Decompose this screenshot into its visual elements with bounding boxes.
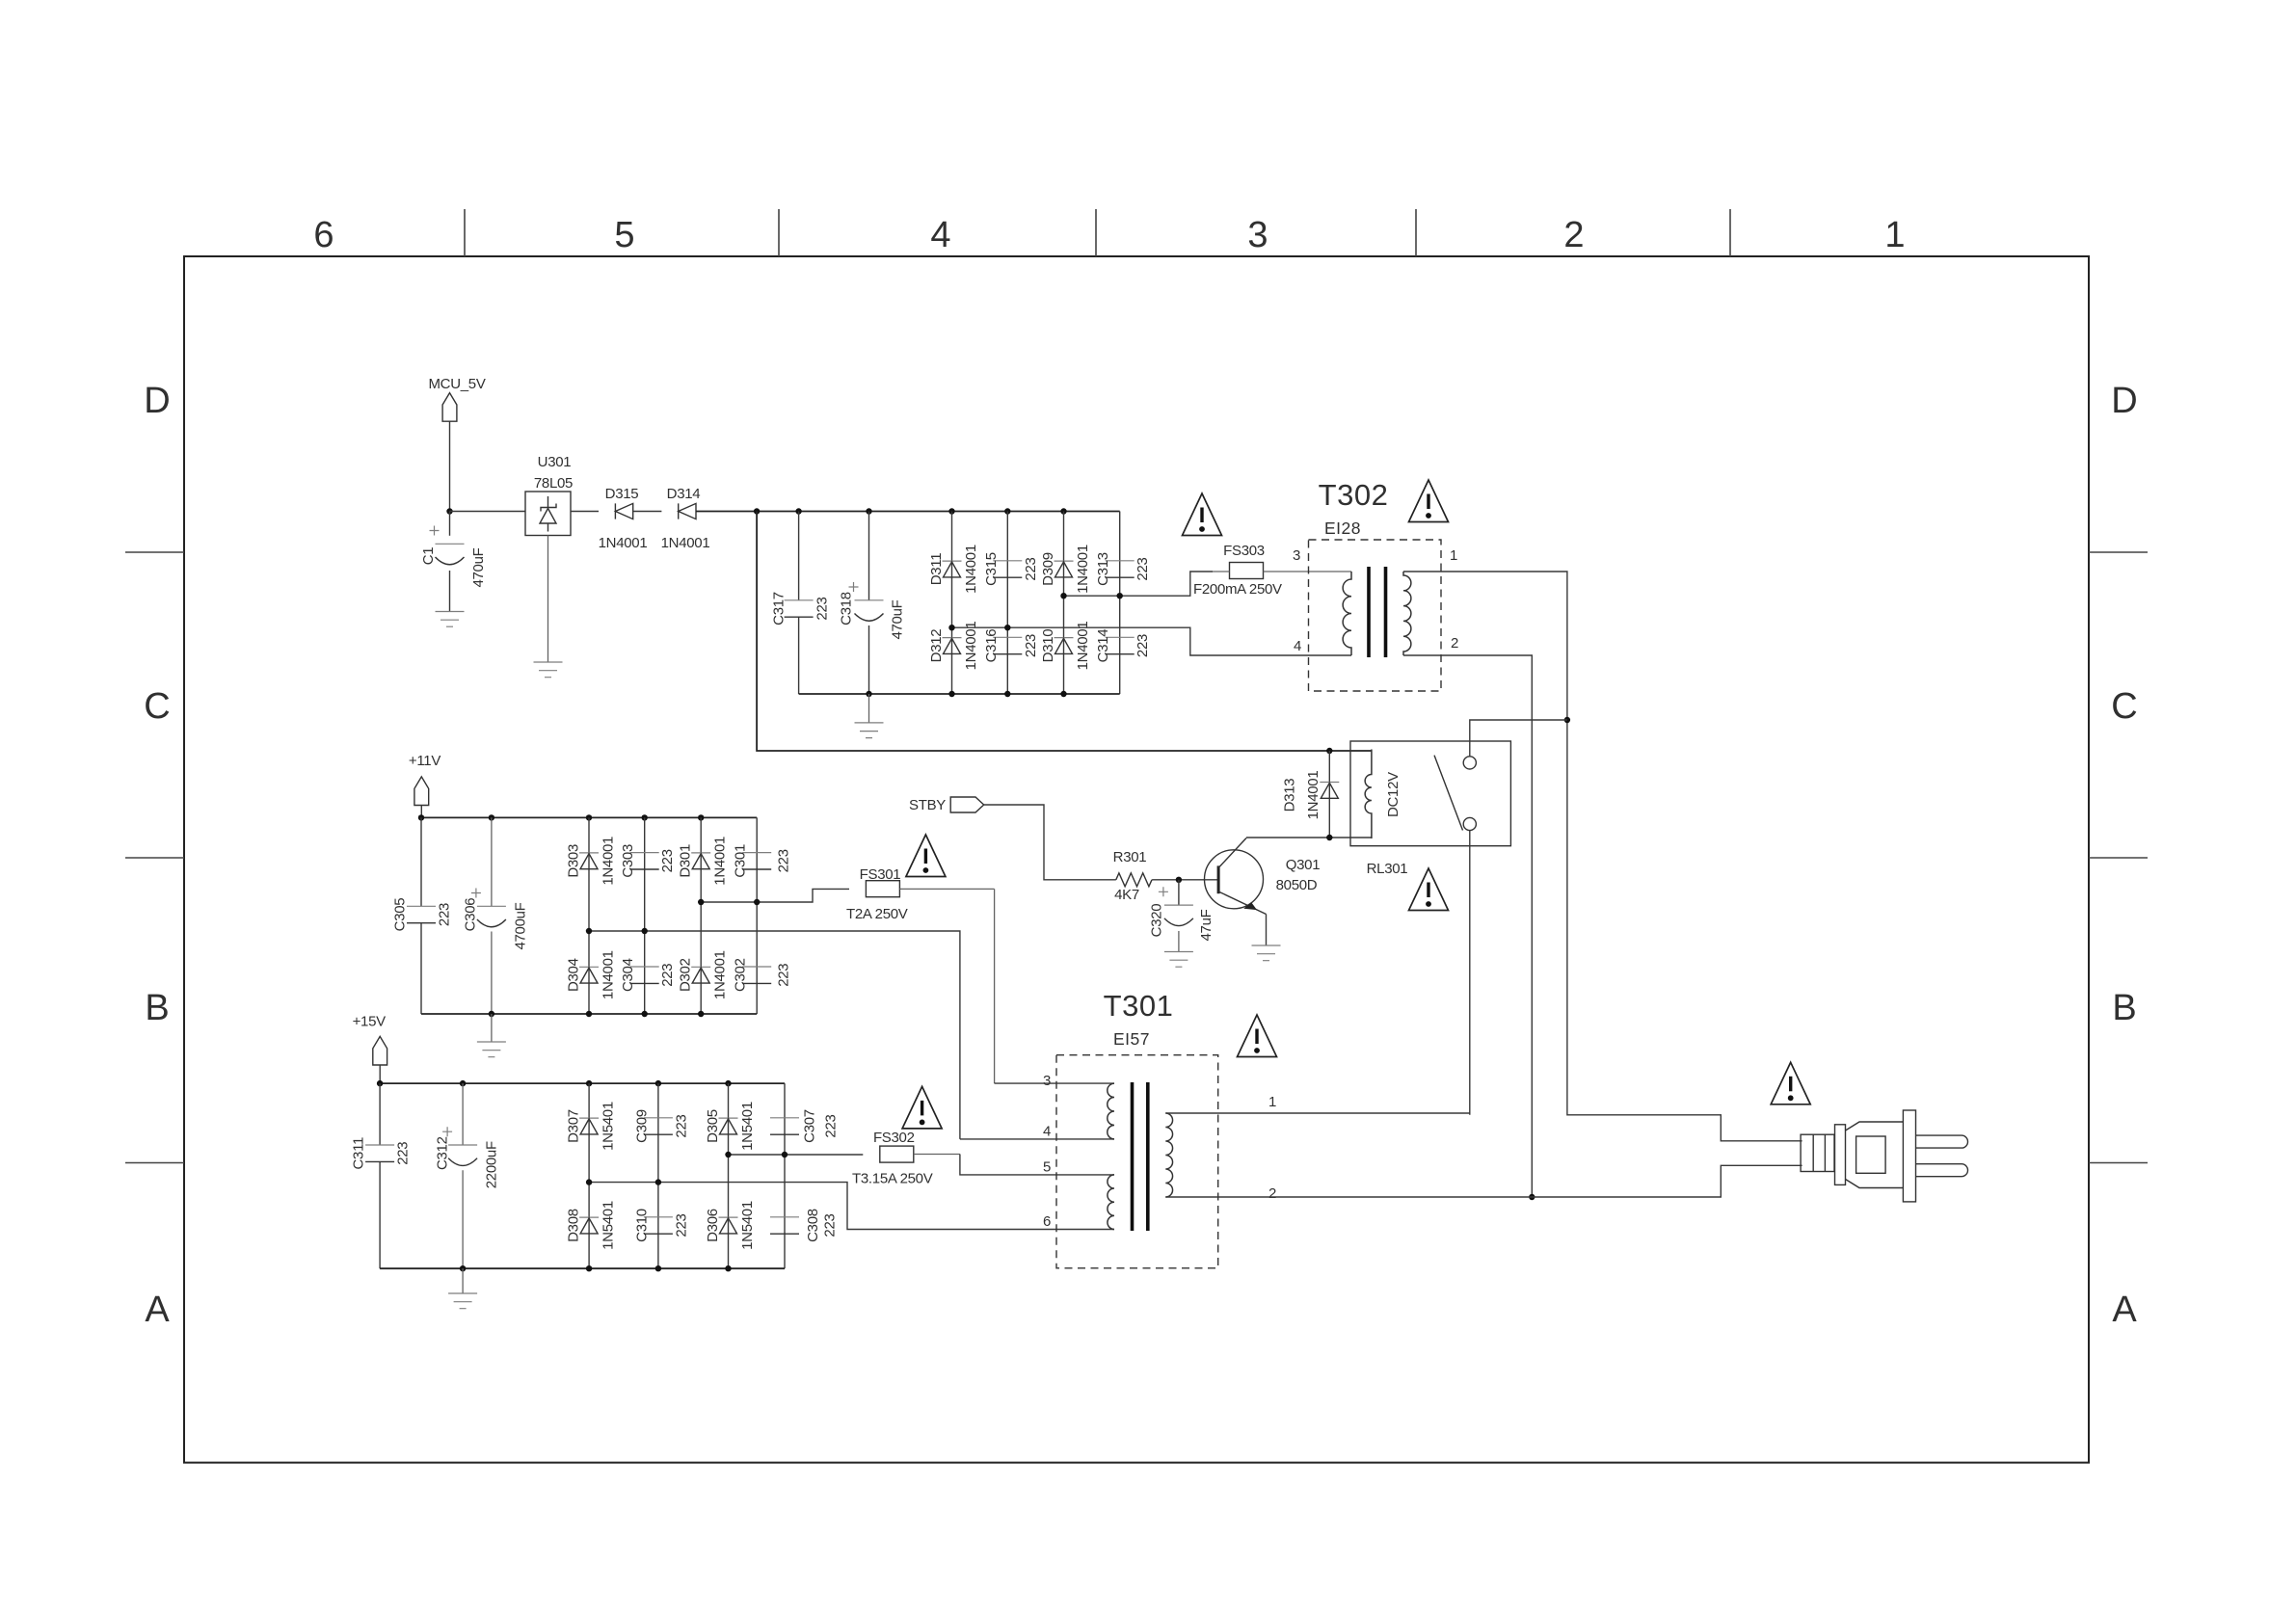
capacitor C304 column (223): [644, 931, 646, 1014]
diode D303 column (1N4001): [588, 817, 590, 931]
ground below C320: [1164, 952, 1193, 968]
wire main +rail D314 to array (node row): [696, 508, 1120, 514]
svg-text:223: 223: [822, 1213, 839, 1237]
svg-text:D315: D315: [605, 486, 639, 502]
svg-text:3: 3: [1293, 547, 1300, 564]
capacitor C301 (223): [733, 844, 792, 878]
capacitor C304 (223): [620, 958, 676, 992]
T302 pin 2 label: [1451, 635, 1458, 652]
svg-text:3: 3: [1247, 215, 1268, 255]
svg-text:223: 223: [1023, 634, 1039, 657]
ground below C318 column: [855, 694, 884, 738]
capacitor C308 column (223): [770, 1155, 839, 1268]
diode D307 (1N5401): [566, 1102, 617, 1151]
diode D305 (1N5401): [705, 1102, 756, 1151]
svg-text:1N4001: 1N4001: [712, 837, 729, 886]
diode D301 (1N4001): [678, 837, 729, 886]
svg-text:1N4001: 1N4001: [963, 622, 979, 671]
svg-text:DC12V: DC12V: [1385, 772, 1402, 817]
svg-text:1N5401: 1N5401: [739, 1201, 756, 1250]
row label D right: [2111, 381, 2137, 421]
power flag MCU_5V: [428, 376, 485, 421]
capacitor C301 column (223): [756, 817, 758, 902]
row label C right: [2111, 686, 2137, 727]
diode D311 column (1N4001): [951, 512, 953, 628]
warning triangle right of T302: [1409, 480, 1449, 522]
svg-text:C315: C315: [983, 552, 1000, 586]
svg-text:FS303: FS303: [1223, 543, 1265, 559]
power flag +15V: [353, 1014, 387, 1066]
T301 pin 5 label: [1043, 1159, 1051, 1176]
capacitor C309 column (223): [657, 1083, 659, 1183]
diode D306 column (1N5401): [728, 1155, 730, 1268]
net label STBY: [909, 797, 984, 813]
regulator U301 78L05: [525, 454, 573, 536]
svg-text:C306: C306: [463, 898, 479, 932]
row label B right: [2112, 988, 2136, 1028]
svg-text:F200mA 250V: F200mA 250V: [1193, 581, 1282, 598]
diode D309 (1N4001): [1040, 545, 1091, 594]
wire D305/C307 junction to FS302: [725, 1152, 863, 1157]
svg-text:D314: D314: [667, 486, 701, 502]
svg-text:D302: D302: [678, 958, 694, 992]
svg-text:C316: C316: [983, 629, 1000, 663]
transformer T301 EI57 subtitle: [1113, 1029, 1150, 1049]
row label B left: [145, 988, 169, 1028]
svg-text:D303: D303: [566, 844, 582, 878]
svg-text:A: A: [145, 1290, 170, 1330]
capacitor C315 (223): [983, 552, 1039, 586]
svg-text:B: B: [2112, 988, 2136, 1028]
svg-text:223: 223: [814, 597, 831, 620]
svg-text:D306: D306: [705, 1209, 721, 1242]
svg-text:Q301: Q301: [1286, 857, 1321, 873]
svg-text:C305: C305: [392, 898, 409, 932]
svg-text:D313: D313: [1282, 779, 1298, 812]
ground below C306: [477, 1014, 506, 1057]
wire T302 pin1 to relay contact and plug line: [1403, 572, 1802, 1141]
wire D309/C313 junction to FS303: [1060, 572, 1213, 599]
wire relay bottom contact down to T301 pin1 net: [1469, 831, 1471, 1115]
diode D312 column (1N4001): [951, 627, 953, 694]
svg-text:A: A: [2112, 1290, 2137, 1330]
svg-text:1N4001: 1N4001: [1305, 771, 1322, 820]
capacitor C1 (470uF) polarized: [420, 512, 487, 612]
capacitor C310 column (223): [657, 1183, 659, 1269]
diode D302 (1N4001): [678, 950, 729, 999]
svg-text:D305: D305: [705, 1109, 721, 1143]
capacitor C318 (470uF) polarized: [839, 512, 906, 695]
svg-text:B: B: [145, 988, 169, 1028]
svg-text:C1: C1: [420, 547, 437, 566]
svg-text:C311: C311: [351, 1137, 367, 1170]
diode D310 (1N4001): [1040, 622, 1091, 671]
svg-text:470uF: 470uF: [470, 547, 487, 587]
row label A left: [145, 1290, 170, 1330]
svg-text:470uF: 470uF: [890, 599, 906, 639]
diode D303 (1N4001): [566, 837, 617, 886]
svg-text:5: 5: [1043, 1159, 1051, 1176]
diode D302 column (1N4001): [700, 902, 702, 1014]
column label 4: [930, 215, 950, 255]
svg-text:47uF: 47uF: [1198, 909, 1215, 941]
warning triangle above FS301: [906, 835, 946, 877]
T301 core bars: [1133, 1082, 1148, 1231]
wire T301 pin4 lead: [960, 1138, 1114, 1140]
T301 secondary coil: [1165, 1113, 1172, 1197]
capacitor C313 (223): [1095, 552, 1151, 586]
svg-text:223: 223: [1023, 557, 1039, 580]
svg-text:4700uF: 4700uF: [513, 902, 529, 949]
svg-text:C304: C304: [620, 958, 636, 992]
svg-text:1N5401: 1N5401: [601, 1102, 617, 1151]
svg-text:1: 1: [1884, 215, 1905, 255]
capacitor C302 column (223): [756, 902, 758, 1014]
wire node to U301 input: [450, 511, 526, 513]
T301 pin 2 label: [1268, 1185, 1276, 1202]
svg-text:2200uF: 2200uF: [484, 1141, 500, 1188]
wire D301/C301 junction to FS301: [698, 889, 849, 905]
wire D311/C315 junction to T302 pin4: [948, 625, 1351, 655]
transformer T301 dashed body: [1056, 1055, 1218, 1268]
capacitor C310 (223): [633, 1209, 689, 1242]
relay RL301: [1350, 741, 1510, 877]
svg-text:D307: D307: [566, 1109, 582, 1143]
wire +11V block bottom bus: [421, 1011, 757, 1017]
row label C left: [144, 686, 170, 727]
wire MCU_5V flag to node: [446, 421, 452, 515]
sheet border frame: [184, 256, 2089, 1463]
capacitor C313 column (223): [1119, 512, 1121, 597]
capacitor C302 (223): [733, 958, 792, 992]
svg-text:1N4001: 1N4001: [599, 535, 648, 551]
diode D308 column (1N5401): [588, 1183, 590, 1269]
svg-text:+11V: +11V: [409, 753, 441, 769]
svg-text:223: 223: [659, 964, 676, 987]
column tick marks top edge: [465, 209, 1730, 256]
warning triangle near FS303: [1183, 493, 1222, 536]
warning triangle right of T301: [1238, 1015, 1277, 1057]
svg-text:D308: D308: [566, 1209, 582, 1242]
wire D307/C309 junction to T301 pin6: [586, 1179, 1114, 1229]
capacitor C303 (223): [620, 844, 676, 878]
wire +15V flag to bus: [379, 1065, 381, 1083]
svg-text:1N4001: 1N4001: [963, 545, 979, 594]
svg-text:R301: R301: [1113, 849, 1147, 865]
svg-text:MCU_5V: MCU_5V: [428, 376, 485, 392]
svg-text:223: 223: [673, 1213, 689, 1237]
capacitor C311 (223): [351, 1083, 412, 1268]
wire rectified rail left drop (array to relay coil top): [757, 512, 1372, 755]
T302 pin 1 label: [1450, 547, 1457, 564]
svg-text:3: 3: [1043, 1073, 1051, 1089]
row tick marks left edge: [125, 552, 184, 1163]
column label 3: [1247, 215, 1268, 255]
wire +11V flag to bus: [420, 806, 422, 818]
svg-text:223: 223: [823, 1114, 840, 1137]
T302 primary coil: [1343, 572, 1351, 655]
diode D308 (1N5401): [566, 1201, 617, 1250]
capacitor C320 (47uF) polarized: [1148, 880, 1215, 952]
wire D315 to D314: [633, 511, 662, 513]
diode D305 column (1N5401): [728, 1083, 730, 1155]
wire D303/C303 junction to T301 pin4: [586, 928, 960, 1139]
svg-text:4: 4: [930, 215, 950, 255]
svg-text:C: C: [2111, 686, 2137, 727]
svg-text:C320: C320: [1148, 904, 1164, 938]
capacitor C305 (223): [392, 817, 453, 1014]
T302 pin 3 label: [1293, 547, 1300, 564]
svg-text:1N4001: 1N4001: [601, 837, 617, 886]
T302 pin 4 label: [1294, 638, 1301, 654]
T301 pin 6 label: [1043, 1213, 1051, 1230]
svg-text:1N4001: 1N4001: [1075, 622, 1091, 671]
capacitor C316 (223): [983, 629, 1039, 663]
svg-text:223: 223: [1135, 634, 1151, 657]
ground below Q301 emitter: [1252, 945, 1281, 961]
diode D306 (1N5401): [705, 1201, 756, 1250]
wire FS301 to T301 pin3: [994, 889, 996, 1083]
wire T302 pin2 down to T301 pin2 net: [1403, 655, 1535, 1200]
capacitor C317 (223): [771, 512, 831, 695]
capacitor C309 (223): [633, 1109, 689, 1143]
column label 1: [1884, 215, 1905, 255]
svg-text:+15V: +15V: [353, 1014, 387, 1030]
wire T301 pin3 lead: [995, 1082, 1114, 1084]
svg-text:D: D: [2111, 381, 2137, 421]
row label D left: [144, 381, 170, 421]
svg-text:2: 2: [1268, 1185, 1276, 1202]
svg-text:EI28: EI28: [1324, 519, 1361, 538]
svg-text:4: 4: [1294, 638, 1301, 654]
transformer T302 title: [1319, 478, 1389, 512]
diode D312 (1N4001): [928, 622, 979, 671]
wire +11V top bus: [418, 814, 757, 820]
svg-text:1N4001: 1N4001: [1075, 545, 1091, 594]
diode D309 column (1N4001): [1063, 512, 1065, 597]
svg-text:C310: C310: [633, 1209, 650, 1242]
diode D315 (1N4001): [599, 486, 648, 551]
svg-text:C307: C307: [802, 1109, 818, 1143]
svg-text:5: 5: [614, 215, 634, 255]
fuse FS301 (T2A 250V): [846, 866, 995, 922]
column label 6: [313, 215, 334, 255]
row label A right: [2112, 1290, 2137, 1330]
transformer T301 title: [1104, 989, 1174, 1023]
svg-text:223: 223: [437, 903, 453, 926]
ground below C312: [448, 1268, 477, 1309]
T301 pin 3 label: [1043, 1073, 1051, 1089]
svg-text:C312: C312: [435, 1136, 451, 1170]
wire +15V block bottom bus: [380, 1265, 785, 1271]
svg-text:C303: C303: [620, 844, 636, 878]
diode D304 (1N4001): [566, 950, 617, 999]
svg-text:1N4001: 1N4001: [712, 950, 729, 999]
wire relay top contact up and over to T302 pin1 net: [1470, 720, 1567, 757]
svg-text:C317: C317: [771, 592, 788, 625]
resistor R301 (4K7): [1113, 849, 1152, 903]
wire T301 pin1 to relay common: [1165, 1112, 1470, 1114]
svg-text:T302: T302: [1319, 478, 1389, 512]
T301 pin 1 label: [1268, 1094, 1276, 1110]
column label 2: [1563, 215, 1584, 255]
svg-text:C: C: [144, 686, 170, 727]
capacitor C303 column (223): [644, 817, 646, 931]
svg-text:D309: D309: [1040, 552, 1056, 586]
T302 secondary coil: [1403, 572, 1411, 655]
svg-text:223: 223: [1135, 557, 1151, 580]
diode D310 column (1N4001): [1063, 596, 1065, 694]
svg-text:1N4001: 1N4001: [601, 950, 617, 999]
capacitor C316 column (223): [1006, 627, 1008, 694]
svg-text:223: 223: [776, 849, 792, 872]
svg-text:4: 4: [1043, 1124, 1051, 1140]
diode D311 (1N4001): [928, 545, 979, 594]
capacitor C307 column (223): [770, 1083, 840, 1155]
svg-text:D301: D301: [678, 844, 694, 878]
diode D314 (1N4001): [661, 486, 710, 551]
capacitor C315 column (223): [1006, 512, 1008, 628]
svg-text:D311: D311: [928, 553, 945, 586]
svg-text:D312: D312: [928, 629, 945, 663]
svg-text:T2A 250V: T2A 250V: [846, 906, 908, 922]
svg-text:T301: T301: [1104, 989, 1174, 1023]
transformer T302 EI28 subtitle: [1324, 519, 1361, 538]
svg-text:FS302: FS302: [873, 1130, 915, 1146]
diode D313 (1N4001) across relay coil: [1282, 751, 1340, 838]
capacitor C306 (4700uF) polarized: [463, 817, 529, 1014]
svg-text:C309: C309: [633, 1109, 650, 1143]
svg-text:C314: C314: [1095, 629, 1111, 663]
svg-text:78L05: 78L05: [534, 475, 573, 492]
svg-text:6: 6: [1043, 1213, 1051, 1230]
svg-text:223: 223: [395, 1142, 412, 1165]
svg-text:RL301: RL301: [1367, 861, 1408, 877]
warning triangle above plug: [1771, 1062, 1810, 1104]
T301 primary top coil: [1108, 1083, 1114, 1139]
column label 5: [614, 215, 634, 255]
svg-text:8050D: 8050D: [1276, 877, 1318, 893]
svg-text:2: 2: [1451, 635, 1458, 652]
svg-text:C301: C301: [733, 844, 749, 878]
capacitor C314 (223): [1095, 629, 1151, 663]
svg-text:C313: C313: [1095, 552, 1111, 586]
warning triangle near FS302: [902, 1086, 942, 1129]
svg-text:C308: C308: [805, 1209, 821, 1242]
svg-text:C318: C318: [839, 592, 855, 625]
AC plug P301: [1801, 1110, 1967, 1202]
transformer T302 dashed body: [1309, 540, 1442, 691]
svg-text:6: 6: [313, 215, 334, 255]
ground below U301: [534, 536, 563, 678]
svg-text:223: 223: [673, 1114, 689, 1137]
fuse FS302 (T3.15A 250V): [852, 1130, 960, 1187]
svg-text:C302: C302: [733, 958, 749, 992]
svg-text:223: 223: [659, 849, 676, 872]
wire R301 to Q301 base: [1152, 877, 1218, 883]
svg-text:2: 2: [1563, 215, 1584, 255]
wire +15V top bus: [377, 1080, 785, 1086]
T301 primary bottom coil: [1108, 1175, 1114, 1230]
svg-text:D: D: [144, 381, 170, 421]
wire FS302 to T301 pin5: [960, 1155, 1114, 1175]
T302 core bars: [1369, 567, 1386, 657]
T301 pin 4 label: [1043, 1124, 1051, 1140]
svg-text:T3.15A 250V: T3.15A 250V: [852, 1171, 933, 1187]
transistor Q301 8050D: [1205, 838, 1321, 915]
svg-text:1: 1: [1268, 1094, 1276, 1110]
row tick marks right edge: [2089, 552, 2148, 1163]
ground below C1: [436, 612, 465, 627]
svg-text:1N5401: 1N5401: [601, 1201, 617, 1250]
wire top array bottom bus: [799, 691, 1120, 697]
svg-text:STBY: STBY: [909, 797, 946, 813]
svg-text:D304: D304: [566, 958, 582, 992]
svg-text:1N4001: 1N4001: [661, 535, 710, 551]
svg-text:223: 223: [776, 964, 792, 987]
svg-text:EI57: EI57: [1113, 1029, 1150, 1049]
power flag +11V: [409, 753, 441, 806]
capacitor C312 (2200uF) polarized: [435, 1083, 500, 1268]
svg-text:1N5401: 1N5401: [739, 1102, 756, 1151]
diode D301 column (1N4001): [700, 817, 702, 902]
svg-text:U301: U301: [538, 454, 572, 470]
warning triangle below RL301: [1409, 868, 1449, 911]
diode D304 column (1N4001): [588, 931, 590, 1014]
wire Q301 collector to relay coil bottom: [1246, 835, 1372, 840]
svg-text:1: 1: [1450, 547, 1457, 564]
wire Q301 emitter to ground: [1266, 915, 1268, 946]
wire T301 pin2 to plug neutral: [1165, 1165, 1802, 1197]
wire U301 to D315: [571, 511, 599, 513]
diode D307 column (1N5401): [588, 1083, 590, 1183]
svg-text:D310: D310: [1040, 629, 1056, 663]
fuse FS303 (F200mA 250V): [1193, 543, 1351, 598]
capacitor C314 column (223): [1119, 596, 1121, 694]
svg-text:4K7: 4K7: [1114, 887, 1139, 903]
wire STBY to R301: [984, 805, 1116, 880]
